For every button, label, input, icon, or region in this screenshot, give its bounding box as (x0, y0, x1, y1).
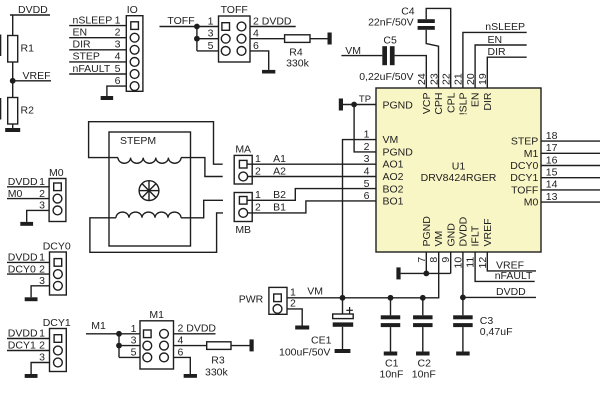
svg-text:nSLEEP: nSLEEP (73, 14, 113, 26)
resistor R2 (8, 98, 34, 125)
svg-text:PGND: PGND (421, 216, 433, 247)
wire C5 to pin 24 VCP (395, 56, 427, 88)
wire winding B right to MB pin 1 (181, 200, 223, 218)
svg-text:330k: 330k (205, 366, 229, 378)
wire C4 top to pin 22 CPL (426, 8, 451, 88)
svg-text:VM: VM (307, 286, 323, 298)
svg-text:PGND: PGND (383, 146, 414, 158)
svg-text:EN: EN (73, 27, 88, 39)
wire TOFF pin2 to DVDD (250, 15, 296, 27)
svg-text:BO1: BO1 (383, 196, 404, 208)
wire DCY1 pin1 DVDD (7, 328, 50, 340)
svg-text:PGND: PGND (383, 99, 414, 111)
svg-text:EN: EN (488, 34, 503, 46)
svg-text:3: 3 (208, 28, 214, 40)
svg-text:1: 1 (255, 189, 261, 201)
svg-text:1: 1 (39, 176, 45, 188)
wire R2 to ground (12, 124, 14, 128)
svg-text:10nF: 10nF (380, 368, 404, 380)
offboard bar (PGND) (396, 267, 400, 279)
wire winding A right to MA pin 2 (181, 158, 223, 177)
node EN (488, 34, 503, 46)
svg-text:DCY1: DCY1 (510, 172, 538, 184)
inductor winding B (bottom coil) (116, 212, 181, 218)
wire TOFF pin4 to R4 (250, 38, 285, 40)
svg-text:2: 2 (290, 298, 296, 310)
wire A1: MA pin1 to U1 pin3 AO1 (247, 153, 376, 165)
svg-text:A1: A1 (273, 153, 286, 165)
wire DCY0 pin3 to ground (31, 275, 49, 297)
capacitor CE1 100uF/50V (electrolytic) (279, 298, 353, 359)
svg-text:DVDD: DVDD (8, 176, 38, 188)
wire A2: MA pin2 to U1 pin4 AO2 (248, 165, 376, 177)
connector DCY0 (43, 241, 71, 296)
svg-text:M0: M0 (8, 188, 23, 200)
junction VM rail / C1 (388, 295, 394, 301)
wire R4 to offboard (310, 38, 328, 40)
connector M0 (49, 167, 66, 222)
node nSLEEP (485, 21, 525, 33)
svg-text:PWR: PWR (239, 293, 264, 305)
svg-text:M1: M1 (149, 309, 164, 321)
motor rotor symbol (139, 181, 159, 201)
wire M1 pin4 to R3 (174, 345, 207, 347)
svg-text:DVDD: DVDD (8, 252, 38, 264)
U1 left pin names (383, 134, 414, 208)
ground (M0 pin 3) (20, 222, 33, 226)
svg-text:6: 6 (115, 75, 121, 87)
wire TOFF pins 1-3-5 strap (197, 27, 219, 51)
svg-text:22: 22 (441, 73, 453, 85)
svg-text:5: 5 (131, 346, 137, 358)
wire edge remnants left (0, 35, 1, 120)
svg-text:CPH: CPH (433, 93, 445, 115)
svg-text:nFAULT: nFAULT (73, 63, 111, 75)
svg-text:M0: M0 (524, 197, 539, 209)
svg-text:EN: EN (470, 93, 482, 108)
wire B2: MB pin1 to U1 pin5 BO2 (247, 189, 376, 202)
wire pin 21 !SLP to nSLEEP (463, 32, 527, 88)
capacitor C1 10nF (380, 298, 404, 381)
svg-text:2 DVDD: 2 DVDD (253, 15, 292, 27)
junction TOFF pin3 (194, 36, 200, 42)
motor block STEPM (109, 132, 191, 246)
svg-text:2: 2 (255, 202, 261, 214)
resistor R3 330k (205, 342, 231, 379)
svg-text:STEP: STEP (511, 136, 538, 148)
svg-text:17: 17 (546, 142, 558, 154)
svg-text:23: 23 (428, 73, 440, 85)
wire DCY0 pin2 DCY0 (7, 263, 50, 275)
wire winding B left to MB pin 2 (90, 213, 223, 252)
svg-text:16: 16 (546, 154, 558, 166)
ground (IO pin 6) (101, 96, 114, 100)
node STEP / pin 4 label (73, 51, 121, 63)
svg-text:A2: A2 (273, 165, 286, 177)
U1 bottom pin numbers 7-12 (rotated) (416, 257, 489, 269)
svg-text:1: 1 (39, 328, 45, 340)
svg-text:22nF/50V: 22nF/50V (368, 17, 414, 29)
svg-text:R2: R2 (21, 105, 35, 117)
svg-text:18: 18 (546, 130, 558, 142)
wire M0 pin2 M0 (7, 188, 49, 200)
wire pin 19 DIR (487, 57, 526, 88)
U1 right pin numbers 18-13 (546, 130, 558, 203)
svg-text:R1: R1 (21, 43, 35, 55)
ground (M1 pin 6) (184, 374, 197, 378)
svg-text:CE1: CE1 (311, 334, 332, 346)
wire TOFF pin6 to ground (250, 51, 269, 70)
svg-text:0,47uF: 0,47uF (480, 326, 513, 338)
node M1 (net label) (86, 320, 119, 334)
wire R3 to offboard (231, 345, 250, 347)
wire winding A left to MA pin 1 (89, 122, 223, 165)
wire PWR pin2 to ground (287, 309, 302, 326)
junction TP (351, 102, 357, 108)
svg-text:M0: M0 (49, 167, 64, 179)
ground (below R2) (5, 128, 20, 132)
svg-text:14: 14 (546, 179, 558, 191)
svg-text:MA: MA (235, 144, 251, 156)
junction PGND tie (423, 271, 429, 277)
U1 top pin numbers 24-19 (rotated) (416, 73, 489, 85)
wire DCY1 pin3 to ground (31, 352, 49, 374)
node VM (rail label) (307, 286, 323, 298)
svg-text:3: 3 (364, 153, 370, 165)
svg-text:2: 2 (39, 188, 45, 200)
svg-text:3: 3 (131, 335, 137, 347)
svg-text:DIR: DIR (482, 92, 494, 111)
ground (TOFF pin 6) (262, 70, 275, 74)
U1 top pin names (rotated) (421, 92, 494, 115)
svg-text:4: 4 (364, 166, 370, 178)
wire pin 7 PGND / pin 9 GND tie (401, 252, 451, 273)
wire C4 bottom to pin 23 CPH (426, 30, 438, 88)
svg-text:nFAULT: nFAULT (495, 270, 533, 282)
wire R1 to R2 (12, 62, 14, 98)
svg-text:3: 3 (39, 200, 45, 212)
svg-text:2: 2 (39, 340, 45, 352)
ground (C2) (416, 352, 430, 356)
svg-text:VREF: VREF (496, 260, 524, 272)
node nFAULT / pin 5 label (73, 63, 121, 75)
wire M1 pin6 to ground (174, 357, 191, 374)
svg-text:3: 3 (115, 39, 121, 51)
node DIR / pin 3 label (73, 39, 121, 51)
svg-text:19: 19 (477, 73, 489, 85)
U1 right pin names (510, 136, 538, 209)
node TOFF (net label) (160, 15, 219, 27)
svg-text:STEPM: STEPM (120, 135, 156, 147)
connector PWR (239, 287, 296, 315)
svg-text:DCY1: DCY1 (8, 340, 36, 352)
wire IO pin 3 (DIR) (69, 49, 126, 51)
svg-text:20: 20 (465, 73, 477, 85)
wire M1 pins 1-3-5 strap (119, 334, 140, 358)
node DVDD (top-left) (18, 4, 48, 16)
svg-text:1: 1 (364, 129, 370, 141)
svg-text:2: 2 (115, 27, 121, 39)
capacitor C4 22nF/50V (368, 6, 435, 30)
svg-text:2: 2 (364, 141, 370, 153)
svg-text:STEP: STEP (73, 51, 100, 63)
ground (DCY1 pin 3) (25, 374, 38, 378)
svg-text:100uF/50V: 100uF/50V (279, 346, 330, 358)
test point TP bar (339, 99, 343, 111)
svg-text:330k: 330k (286, 58, 310, 70)
svg-text:DCY0: DCY0 (510, 160, 538, 172)
svg-text:1: 1 (208, 16, 214, 28)
connector MA (234, 144, 252, 184)
svg-text:1: 1 (115, 14, 121, 26)
connector TOFF (header) (208, 4, 259, 62)
svg-text:4: 4 (115, 51, 121, 63)
node VREF (divider) (10, 70, 51, 84)
connector M1 (header) (131, 309, 184, 369)
svg-text:R3: R3 (211, 354, 225, 366)
offboard bar (R3) (250, 339, 254, 351)
connector IO (126, 4, 143, 91)
svg-text:M1: M1 (524, 148, 539, 160)
svg-text:15: 15 (546, 167, 558, 179)
svg-text:24: 24 (416, 73, 428, 85)
node nSLEEP / pin 1 label (73, 14, 121, 26)
svg-text:1: 1 (131, 323, 137, 335)
op-amp/driver U1 DRV8424RGER body (376, 88, 541, 252)
wire pins 18-13 to board edge (541, 141, 600, 202)
junction DVDD / C3 (460, 295, 466, 301)
wire IO pin 2 (EN) (69, 37, 126, 39)
wire DCY0 pin1 DVDD (7, 252, 50, 264)
svg-text:2 DVDD: 2 DVDD (178, 323, 217, 335)
svg-text:1: 1 (255, 153, 261, 165)
node DVDD (label line) (463, 286, 536, 298)
svg-text:IFLT: IFLT (470, 225, 482, 246)
svg-text:DRV8424RGER: DRV8424RGER (421, 172, 497, 184)
svg-text:DVDD: DVDD (496, 286, 526, 298)
svg-text:nSLEEP: nSLEEP (485, 21, 525, 33)
wire DVDD top-left (10, 15, 50, 36)
svg-text:B1: B1 (273, 202, 286, 214)
svg-text:IO: IO (127, 4, 138, 16)
svg-text:DVDD: DVDD (8, 328, 38, 340)
ground (DCY0 pin 3) (25, 297, 38, 301)
wire B1: MB pin2 to U1 pin6 BO1 (248, 201, 376, 214)
ground (PWR pin 2) (295, 326, 309, 330)
wire M0 pin1 DVDD (7, 176, 49, 188)
svg-text:TP: TP (359, 94, 371, 105)
svg-text:CPL: CPL (445, 92, 457, 113)
node VM (top) (341, 45, 382, 57)
svg-text:1: 1 (39, 252, 45, 264)
svg-text:5: 5 (208, 40, 214, 52)
svg-text:TOFF: TOFF (221, 4, 248, 16)
svg-text:VCP: VCP (421, 93, 433, 115)
wire VM rail: PWR pin1 to pin 8 VM (287, 252, 439, 298)
U1 bottom pin names (rotated) (421, 216, 494, 247)
wire pin 12 VREF (487, 252, 536, 272)
svg-text:DCY0: DCY0 (43, 241, 71, 253)
wire IO pin 4 (STEP) (69, 61, 126, 63)
svg-text:21: 21 (453, 73, 465, 85)
svg-text:AO1: AO1 (383, 159, 404, 171)
svg-text:4: 4 (253, 28, 259, 40)
resistor R4 330k (285, 35, 310, 70)
wire pin 11 IFLT to nFAULT (475, 252, 535, 282)
svg-text:4: 4 (178, 335, 184, 347)
connector DCY1 (43, 317, 71, 372)
svg-text:VM: VM (433, 231, 445, 247)
capacitor C2 10nF (412, 298, 436, 381)
offboard bar (R4) (328, 33, 332, 45)
connector MB (234, 193, 252, 237)
svg-text:U1: U1 (452, 161, 466, 173)
resistor R1 (8, 36, 34, 63)
svg-text:M1: M1 (91, 320, 106, 332)
svg-text:BO2: BO2 (383, 183, 404, 195)
ground (CE1) (335, 349, 351, 353)
wire M0 pin3 to ground (27, 200, 49, 222)
inductor winding A (top coil) (118, 158, 181, 164)
node DIR (488, 46, 507, 58)
wire IO pin 6 to ground (107, 75, 126, 96)
svg-text:DVDD: DVDD (18, 4, 48, 16)
wire pin 10 DVDD down (462, 252, 464, 297)
U1 left pin numbers 1-6 (364, 129, 370, 203)
svg-text:13: 13 (546, 191, 558, 203)
svg-text:5: 5 (115, 63, 121, 75)
svg-text:6: 6 (253, 40, 259, 52)
svg-text:B2: B2 (273, 189, 286, 201)
svg-text:10nF: 10nF (412, 368, 436, 380)
junction M1 pin1 (116, 331, 122, 337)
capacitor C3 0,47uF (453, 297, 512, 351)
svg-text:TOFF: TOFF (167, 15, 194, 27)
svg-text:!SLP: !SLP (458, 93, 470, 116)
svg-text:DCY1: DCY1 (43, 317, 71, 329)
svg-text:0,22uF/50V: 0,22uF/50V (359, 71, 413, 83)
wire IO pin 1 (nSLEEP) (69, 25, 126, 27)
wire M1 pin2 to DVDD (174, 323, 217, 335)
svg-text:2: 2 (255, 165, 261, 177)
svg-text:3: 3 (39, 352, 45, 364)
svg-text:DVDD: DVDD (458, 216, 470, 246)
wire U1 pin1 VM down to rail (343, 140, 377, 298)
svg-text:VM: VM (383, 134, 399, 146)
junction TOFF pin1 (194, 24, 200, 30)
ground (C3) (456, 352, 470, 356)
wire IO pin 5 (nFAULT) (69, 73, 126, 75)
ground (C1) (384, 352, 398, 356)
svg-text:3: 3 (39, 275, 45, 287)
junction M1 pin3 (116, 343, 122, 349)
svg-text:VREF: VREF (23, 70, 51, 82)
wire pin 20 EN (475, 45, 527, 88)
wire TP to pin 2 PGND (354, 105, 376, 152)
svg-text:DIR: DIR (73, 39, 92, 51)
wire TP to IC PGND pad (343, 94, 376, 105)
capacitor C5 0,22uF/50V (359, 35, 413, 84)
svg-text:VREF: VREF (482, 218, 494, 246)
svg-text:GND: GND (445, 223, 457, 247)
node EN / pin 2 label (73, 27, 121, 39)
svg-text:MB: MB (235, 224, 251, 236)
svg-text:DIR: DIR (488, 46, 507, 58)
junction VM rail / CE1 / U1 pin1 (340, 295, 346, 301)
svg-text:TOFF: TOFF (511, 184, 538, 196)
junction VM rail / C2 (420, 295, 426, 301)
svg-text:DCY0: DCY0 (8, 263, 36, 275)
svg-text:2: 2 (39, 263, 45, 275)
svg-text:AO2: AO2 (383, 171, 404, 183)
svg-text:C5: C5 (383, 35, 397, 47)
svg-text:6: 6 (178, 346, 184, 358)
wire DCY1 pin2 DCY1 (7, 340, 50, 352)
